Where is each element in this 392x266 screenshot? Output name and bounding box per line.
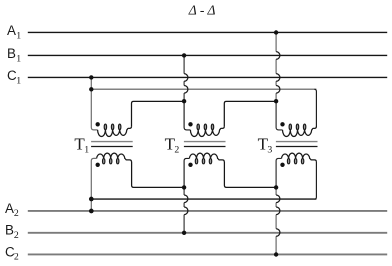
label T2 [165,134,180,155]
svg-text:B: B [5,223,14,238]
wire T3 primary right lead up to gray link [314,89,316,126]
label T3 [258,134,273,155]
svg-text:1: 1 [16,75,21,86]
wire secondary long link (y198.8) [91,198,316,200]
junction dot link y187.4/T3 [274,185,278,189]
junction dot C1/T1 [89,75,93,79]
wire C-phase link (gray, y89.3) [91,88,316,90]
secondary winding eyes T1 [103,159,105,164]
svg-text:2: 2 [14,252,19,263]
svg-text:A: A [7,23,16,38]
wire T3 primary left lead from A1 with hops [275,32,277,101]
svg-text:Δ - Δ: Δ - Δ [188,3,216,18]
label A1 [7,23,21,41]
polarity dot T3 primary [280,122,284,126]
primary winding eyes T2 [197,124,199,130]
wire T3 secondary right lead down to long link [314,162,316,199]
svg-text:3: 3 [267,144,272,155]
wire T2 primary left lead from B1 with hops [183,55,185,101]
primary winding T3 [283,126,317,136]
core T1 upper [91,141,133,143]
junction dot C2/T3 [274,252,278,256]
label C2 [5,244,19,262]
wire T2 secondary left lead to B2 with hops [183,187,185,232]
wire T3 secondary left lead to C2 with hops [275,187,277,254]
junction dot link y101/T2 [182,99,186,103]
junction dot A1/T3 [274,30,278,34]
label B1 [7,46,21,64]
junction dot link y101/T3 [274,99,278,103]
bus line A1 [28,31,387,33]
label A2 [5,201,19,219]
core T3 lower [276,146,318,148]
svg-text:1: 1 [16,53,21,64]
polarity dot T2 secondary [188,163,192,167]
svg-text:B: B [7,46,16,61]
svg-text:2: 2 [14,230,19,241]
svg-text:1: 1 [16,31,21,42]
secondary winding eyes T3 [287,159,289,164]
bus line C2 [28,253,387,255]
bus line C1 [28,76,387,78]
secondary winding T3 [282,153,317,162]
wire T3 secondary left lead upper [276,158,281,187]
junction dot A2/T1 [89,209,94,214]
core T2 lower [184,146,226,148]
polarity dot T1 primary [96,122,100,126]
polarity dot T1 secondary [96,163,100,167]
core T1 lower [91,146,133,148]
primary winding T1 [98,126,132,136]
wire T1 secondary left lead (to A2) [91,158,96,211]
secondary winding T2 [189,153,224,162]
secondary winding eyes T2 [195,159,197,164]
primary winding eyes T1 [104,124,106,130]
primary winding eyes T3 [289,124,291,130]
bus line A2 [28,210,387,212]
wire T2 secondary left lead upper [184,158,189,187]
svg-text:1: 1 [84,144,89,155]
core T3 upper [276,141,318,143]
primary winding T2 [190,126,224,136]
junction dot long link/T1 [89,197,94,202]
polarity dot T3 secondary [280,163,284,167]
svg-text:2: 2 [14,208,19,219]
junction dot gray link/T1 [89,87,93,91]
wire T1 primary right lead to link (y101) [132,101,185,126]
label T1 [74,134,89,155]
secondary winding T1 [97,153,132,162]
junction dot B2/T2 [182,231,186,235]
label B2 [5,223,19,241]
svg-text:A: A [5,201,14,216]
wire T2 primary left lead lower [184,101,190,130]
wire T2 primary right lead to link (y101) [224,101,276,126]
wire T1 secondary right lead to link (y187.4) [132,162,185,188]
bus line B2 [28,232,387,234]
core T2 upper [184,141,226,143]
wire T2 secondary right lead to link (y187.4) [224,162,276,188]
junction dot B1/T2 [182,53,186,57]
label C1 [7,68,21,86]
polarity dot T2 primary [188,122,192,126]
wire T3 primary left lead lower [276,101,282,130]
junction dot link y187.4/T2 [182,185,186,189]
wire T1 primary left lead (from C1) [91,77,97,129]
svg-text:2: 2 [174,144,179,155]
bus line B1 [28,54,387,56]
